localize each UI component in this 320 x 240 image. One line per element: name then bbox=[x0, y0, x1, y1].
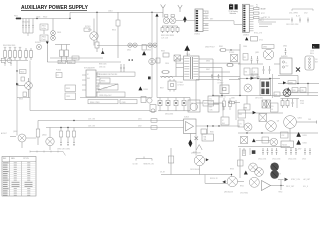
wire opto link bbox=[176, 20, 195, 22]
wire op-amp out bbox=[196, 125, 240, 126]
svg-text:R870: R870 bbox=[204, 103, 208, 105]
wire T801 sec pin5 bbox=[199, 59, 213, 96]
snubber box2 bbox=[65, 85, 76, 92]
capacitor C891 bbox=[67, 141, 69, 146]
svg-text:R825: R825 bbox=[73, 58, 77, 60]
dark logo box right bbox=[312, 44, 320, 49]
resistor R803 bbox=[4, 47, 7, 60]
label bracket mid L bbox=[133, 163, 138, 165]
wire AC riser bbox=[69, 12, 71, 18]
X box small PC804 bbox=[259, 114, 267, 122]
wire gnd bus y97 bbox=[80, 97, 152, 99]
resistor R814 bbox=[95, 12, 99, 52]
transformer T801 body bbox=[184, 56, 200, 80]
tiny arrows left bbox=[4, 62, 12, 66]
node j1 bbox=[96, 12, 97, 13]
svg-text:D87: D87 bbox=[252, 76, 255, 78]
diode dark on y78 bbox=[251, 77, 254, 80]
resistor CN row1 bbox=[254, 8, 260, 10]
transformer T801 primary rungs bbox=[184, 59, 189, 77]
diode box D835 bbox=[98, 84, 118, 90]
label bottom right rows bbox=[240, 185, 244, 187]
wire T801 pin2 bbox=[176, 62, 184, 64]
svg-text:C91: C91 bbox=[239, 124, 242, 126]
svg-text:R950: R950 bbox=[279, 192, 283, 194]
node y78 dots bbox=[246, 78, 270, 79]
antenna Y1 bbox=[161, 5, 166, 18]
wire y95 long bbox=[212, 95, 318, 96]
label ON bbox=[279, 173, 282, 175]
bridge rectifier block bbox=[260, 80, 271, 96]
label PC801 bbox=[178, 82, 184, 87]
wire T801 pin4 long bbox=[160, 76, 184, 78]
svg-text:R831: R831 bbox=[66, 88, 70, 90]
transistor Q842 bbox=[249, 177, 259, 187]
node rail dot bbox=[16, 70, 17, 71]
capacitor C803 bbox=[28, 19, 30, 34]
dark triangle D814 bbox=[142, 45, 146, 56]
gate stopper dark arrow bbox=[16, 83, 19, 86]
snubber box3 bbox=[65, 93, 76, 100]
diode D853 bbox=[182, 98, 186, 111]
connector CN802 pin wires bbox=[249, 6, 253, 31]
transistor Q821 big bbox=[284, 116, 302, 129]
wire y133 long bbox=[238, 132, 318, 133]
snubber X box bbox=[174, 55, 181, 61]
label R815 left of relay bbox=[88, 30, 92, 32]
arrow spark gap bbox=[46, 42, 49, 63]
box R885 bbox=[244, 68, 250, 75]
svg-text:R836 220K: R836 220K bbox=[99, 64, 107, 66]
resistor R890 bbox=[59, 127, 62, 141]
svg-text:803: 803 bbox=[315, 62, 318, 64]
node AC junction bbox=[36, 18, 37, 19]
wire T801 pin1 bbox=[176, 58, 184, 60]
label T801 bbox=[186, 54, 190, 56]
svg-text:IC803: IC803 bbox=[184, 117, 189, 119]
label IC802 bbox=[281, 55, 288, 58]
capacitor C862 bbox=[218, 74, 220, 79]
labels left bottom bbox=[1, 132, 16, 137]
zener ZD831 bbox=[195, 137, 199, 141]
label near k802 bbox=[295, 148, 302, 150]
label snub bbox=[56, 70, 61, 72]
capacitor C836 bbox=[120, 64, 122, 72]
svg-text:LTV817: LTV817 bbox=[178, 85, 184, 87]
antenna Y2 bbox=[178, 5, 182, 12]
wire CN801 to CN802 bbox=[209, 21, 243, 25]
wire y103 a bbox=[196, 102, 203, 104]
capacitor C890 bbox=[60, 141, 62, 146]
svg-text:C942_C943: C942_C943 bbox=[272, 158, 280, 160]
resistor R812 bbox=[55, 45, 70, 63]
svg-text:Q821: Q821 bbox=[298, 117, 302, 119]
svg-text:P1: P1 bbox=[256, 4, 258, 6]
capacitor C861 bbox=[211, 74, 213, 79]
svg-text:P2: P2 bbox=[256, 7, 258, 9]
label D834 bbox=[303, 143, 307, 145]
svg-text:T801: T801 bbox=[186, 54, 190, 56]
svg-text:802: 802 bbox=[286, 65, 289, 67]
label bridge top bbox=[256, 77, 260, 79]
labels bottom row bbox=[57, 148, 70, 150]
resistor R807 bbox=[25, 48, 28, 60]
label below opamp bbox=[193, 152, 197, 154]
out group 4 bbox=[304, 148, 311, 155]
svg-text:D834: D834 bbox=[303, 143, 307, 145]
label 14V ON bbox=[88, 126, 96, 128]
out group 1 bbox=[242, 148, 255, 156]
vert x223 bbox=[222, 103, 224, 117]
svg-text:R726: R726 bbox=[261, 8, 265, 10]
wire x236 mid bbox=[231, 97, 236, 120]
table callout ticks bbox=[30, 151, 66, 156]
resistor R862 hbox bbox=[226, 64, 234, 67]
transistor Q830 bbox=[191, 152, 205, 165]
svg-text:C871 C872: C871 C872 bbox=[255, 97, 263, 99]
svg-text:12V_ON: 12V_ON bbox=[88, 119, 96, 121]
box IC804 bbox=[221, 117, 229, 125]
svg-text:PC802: PC802 bbox=[229, 52, 234, 54]
label comb left top bbox=[3, 45, 15, 47]
wire T801 sec pin8 bbox=[199, 71, 230, 73]
diode D851 bbox=[166, 98, 170, 111]
label C810 bbox=[108, 10, 113, 12]
svg-text:R727: R727 bbox=[261, 13, 265, 15]
svg-text:D867: D867 bbox=[206, 69, 210, 71]
node sec dot bbox=[230, 49, 231, 50]
svg-text:D725: D725 bbox=[259, 39, 263, 41]
svg-text:C88: C88 bbox=[301, 90, 304, 92]
svg-text:D9: D9 bbox=[271, 106, 273, 108]
wire comp out bbox=[271, 185, 308, 188]
connector CN801 pins bbox=[196, 10, 198, 31]
label sec pin wires bbox=[206, 61, 210, 71]
capacitor C866 bbox=[257, 56, 259, 64]
svg-text:R933: R933 bbox=[230, 168, 234, 170]
wire x240 vert low bbox=[239, 148, 241, 178]
svg-text:R8: R8 bbox=[210, 106, 212, 108]
label term bbox=[296, 16, 301, 18]
label bottom mid2 bbox=[230, 168, 234, 170]
svg-text:C905: C905 bbox=[243, 107, 247, 109]
svg-text:Q802: Q802 bbox=[13, 131, 17, 133]
svg-text:R8: R8 bbox=[245, 72, 247, 74]
dark triangle hazard bbox=[184, 45, 190, 56]
label trafo left bbox=[165, 63, 169, 65]
arrow up A1 bbox=[287, 87, 290, 90]
arrow right bottom bbox=[285, 178, 289, 182]
wire bottom-left bus bbox=[0, 60, 28, 62]
wire stub y179 bbox=[278, 179, 284, 181]
dark dot snub bbox=[148, 77, 151, 80]
diode D852 bbox=[174, 98, 178, 111]
wire y79 link bbox=[196, 79, 240, 81]
out group 3 bbox=[285, 148, 297, 155]
opto X box PC802 bbox=[229, 52, 238, 61]
wire y75 right bbox=[278, 76, 298, 84]
svg-text:D833: D833 bbox=[303, 135, 307, 137]
label C864 bbox=[243, 46, 247, 48]
resistor R804 bbox=[9, 47, 12, 60]
elco dark C961 bbox=[270, 170, 279, 179]
svg-text:D862: D862 bbox=[283, 46, 287, 48]
connector CN801 body bbox=[195, 9, 203, 32]
logo TE text bbox=[229, 11, 238, 15]
wire y78 main bbox=[238, 78, 280, 80]
label top caps2 bbox=[22, 21, 30, 23]
svg-text:01: 01 bbox=[271, 109, 273, 111]
wire right rail x240 bbox=[239, 44, 241, 96]
capacitor C865 bbox=[251, 56, 253, 64]
svg-text:RV801: RV801 bbox=[35, 42, 40, 44]
label CN802 bbox=[243, 7, 266, 36]
label box above Q811 bbox=[262, 45, 274, 49]
capacitor C801 bbox=[22, 19, 24, 34]
vert x281 low bbox=[279, 180, 283, 194]
photocoupler PC803 box bbox=[218, 80, 230, 93]
transformer T801 core bbox=[190, 57, 192, 79]
svg-text:C946: C946 bbox=[302, 158, 306, 160]
resistor R805 bbox=[14, 47, 17, 60]
capacitor C802 bbox=[25, 19, 27, 34]
svg-text:SCL_S: SCL_S bbox=[303, 186, 308, 188]
svg-text:D801: D801 bbox=[57, 32, 61, 34]
label cluster AC caps bbox=[36, 17, 47, 19]
line filter LF802 box bbox=[40, 35, 48, 41]
svg-text:REF: REF bbox=[3, 158, 6, 160]
svg-text:LTV817: LTV817 bbox=[218, 83, 224, 85]
svg-text:P_ON: P_ON bbox=[205, 12, 209, 14]
svg-text:F801: F801 bbox=[14, 16, 18, 18]
svg-text:RL_DRV: RL_DRV bbox=[295, 148, 302, 150]
resistor R871 hbox bbox=[228, 101, 240, 104]
transistor Q810 bbox=[283, 89, 291, 97]
svg-text:Q830 C3198: Q830 C3198 bbox=[191, 152, 201, 154]
label PC803 bottom bbox=[219, 97, 226, 99]
wire y83 right bbox=[278, 83, 319, 85]
connector CN802 body bbox=[243, 4, 250, 32]
motor/relay circle M801 bbox=[84, 19, 98, 46]
wire left rail A bbox=[16, 61, 18, 135]
logo TE block bbox=[229, 3, 238, 10]
svg-text:J832: J832 bbox=[138, 126, 142, 128]
svg-text:R820: R820 bbox=[20, 72, 24, 74]
resistor R821 bbox=[21, 77, 25, 81]
fuse F801 on AC line bbox=[14, 16, 21, 20]
svg-text:C851 C852 C853: C851 C852 C853 bbox=[286, 24, 298, 26]
label out2 bbox=[304, 178, 311, 181]
wire rail x152 bbox=[151, 12, 153, 97]
label box R810 bbox=[58, 60, 66, 64]
transistor Q802 bbox=[13, 131, 36, 148]
svg-text:PROT_DET: PROT_DET bbox=[286, 186, 294, 188]
label bracket R bbox=[304, 12, 308, 14]
svg-text:C944_C945: C944_C945 bbox=[288, 158, 296, 160]
wire CN row 5 bbox=[259, 23, 272, 25]
transistor Q804 bbox=[42, 128, 54, 151]
wire y140 bbox=[256, 139, 270, 141]
svg-text:R903: R903 bbox=[300, 100, 304, 102]
wire main rail y110 bbox=[30, 110, 150, 112]
transistor Q822 bbox=[270, 138, 278, 146]
svg-text:C856: C856 bbox=[165, 63, 169, 65]
relay box K801 bbox=[188, 100, 200, 112]
resistor R813 bbox=[65, 45, 69, 63]
dark arrow D817 bbox=[101, 48, 104, 54]
label box R840 bbox=[88, 100, 118, 104]
svg-text:STR-A6069H: STR-A6069H bbox=[84, 67, 95, 70]
resistor comb R851 bbox=[161, 26, 179, 33]
snubber box bbox=[56, 73, 62, 78]
diode pair D811 bbox=[127, 43, 137, 52]
wire x196 vertical bbox=[195, 80, 197, 111]
resistor R806 bbox=[19, 47, 22, 60]
wire source bus bbox=[17, 97, 30, 99]
svg-text:AC_DET: AC_DET bbox=[304, 178, 311, 181]
resistor R861 hbox bbox=[219, 46, 227, 51]
wire x247 stub bbox=[246, 96, 248, 105]
regulator box IC802 bbox=[280, 58, 292, 74]
wire CN row 6 bbox=[259, 25, 268, 27]
diode dark D834 bbox=[297, 140, 301, 145]
labels out rows bbox=[258, 158, 280, 160]
dark tri Q831 bbox=[222, 180, 225, 183]
wire rail x157 bbox=[156, 46, 158, 98]
label box C838 bbox=[97, 92, 125, 97]
box relay K802 bbox=[281, 141, 294, 148]
svg-text:C838 470p 2kV: C838 470p 2kV bbox=[99, 95, 112, 97]
dark mark Q830 bbox=[206, 158, 209, 161]
label box R820 bbox=[20, 70, 27, 74]
svg-text:AUXILIARY POWER SUPPLY: AUXILIARY POWER SUPPLY bbox=[21, 5, 89, 11]
box left low bbox=[238, 160, 244, 166]
svg-text:TV & Display: TV & Display bbox=[229, 11, 238, 13]
svg-text:R868 1K: R868 1K bbox=[219, 97, 226, 99]
svg-text:GND: GND bbox=[205, 24, 208, 26]
svg-text:D866: D866 bbox=[206, 61, 210, 63]
label comb R851 bbox=[161, 35, 174, 40]
bracket mid bottom bbox=[136, 157, 152, 161]
resistor R845 bbox=[223, 98, 226, 110]
label box R811 bbox=[68, 60, 76, 64]
dark double diode D823 bbox=[183, 16, 186, 23]
svg-text:5V_SB: 5V_SB bbox=[133, 163, 138, 165]
resistor R846v bbox=[229, 98, 232, 110]
wire y103 b bbox=[214, 103, 224, 111]
wire rail y120 bbox=[38, 120, 184, 122]
capacitor C892 bbox=[73, 141, 75, 146]
wire T801 pin3 bbox=[176, 67, 184, 69]
svg-text:ACDET: ACDET bbox=[1, 132, 7, 135]
labels out rows 2 bbox=[288, 158, 306, 160]
resistor box R883 bbox=[243, 54, 248, 61]
labels low right bbox=[240, 192, 248, 194]
varistor RV801 bbox=[35, 42, 42, 50]
svg-text:D870: D870 bbox=[256, 77, 260, 79]
svg-text:5V_ST: 5V_ST bbox=[160, 172, 165, 174]
dark triangle below CN802 bbox=[245, 37, 263, 42]
svg-text:KIA7805: KIA7805 bbox=[281, 55, 288, 58]
svg-text:C864: C864 bbox=[243, 46, 247, 48]
ic IC801 PWM bbox=[82, 70, 100, 97]
svg-text:801: 801 bbox=[87, 78, 90, 80]
label R836 bbox=[99, 64, 107, 69]
capacitor C851 bbox=[291, 18, 293, 23]
label mid wires right bbox=[210, 132, 214, 134]
svg-text:D865: D865 bbox=[263, 47, 267, 49]
comparator tri bbox=[262, 181, 271, 191]
svg-text:SNUBBER NETWORK: SNUBBER NETWORK bbox=[99, 74, 118, 76]
wire q821 down bbox=[289, 128, 291, 141]
diode dark D832 bbox=[253, 111, 256, 114]
svg-text:358: 358 bbox=[204, 139, 207, 141]
capacitor C853 bbox=[307, 18, 309, 23]
transistor Q812 bbox=[244, 84, 252, 92]
wire CN row long bbox=[259, 17, 290, 19]
transistor Q840 bbox=[249, 163, 258, 172]
wire AC line top bbox=[15, 18, 70, 20]
wire small stub bbox=[258, 20, 276, 22]
diode D801 bridge bbox=[51, 19, 56, 41]
label IC801 bbox=[84, 67, 95, 70]
label top left corner txt bbox=[256, 4, 258, 8]
box txt left2 bbox=[238, 120, 244, 127]
label Q830 bottom bbox=[190, 169, 200, 171]
op-amp IC803 bbox=[184, 117, 197, 134]
wire y113 bbox=[238, 112, 283, 114]
resistor CN row3 bbox=[254, 17, 260, 19]
box pair X1 bbox=[262, 100, 271, 108]
svg-text:C840: C840 bbox=[122, 102, 126, 104]
svg-text:C940_C941: C940_C941 bbox=[258, 158, 266, 160]
comb right top bbox=[281, 99, 300, 109]
dark tri D836 bbox=[252, 139, 256, 143]
label top right wire bbox=[210, 18, 214, 20]
wire diode row top bus bbox=[157, 97, 190, 99]
X box D835b bbox=[241, 137, 248, 144]
label box bridge top bbox=[251, 74, 258, 78]
svg-text:REMOTE_ON: REMOTE_ON bbox=[144, 163, 155, 165]
box under out wire bbox=[201, 129, 207, 134]
svg-text:R816: R816 bbox=[112, 30, 116, 32]
label CN803 bbox=[315, 59, 318, 64]
svg-text:R941: R941 bbox=[240, 185, 244, 187]
svg-text:CN801: CN801 bbox=[194, 34, 200, 36]
svg-text:R846: R846 bbox=[210, 132, 214, 134]
box R900 bbox=[244, 104, 250, 110]
resistor R825 bbox=[72, 56, 79, 60]
svg-text:R851 R852 R853: R851 R852 R853 bbox=[161, 35, 174, 37]
capacitor C837 bbox=[123, 64, 125, 72]
out group 2 bbox=[262, 148, 277, 155]
big circle Q811 bbox=[255, 49, 274, 60]
svg-text:R835: R835 bbox=[101, 81, 105, 83]
wire to PWM area lower bbox=[47, 61, 121, 63]
svg-text:Q804: Q804 bbox=[42, 135, 46, 137]
box R886 bbox=[252, 68, 258, 75]
svg-text:R860_0: R860_0 bbox=[258, 20, 264, 22]
svg-text:D835: D835 bbox=[103, 88, 107, 90]
label left rail mid bbox=[19, 99, 23, 101]
wire cap bottom bus bbox=[23, 33, 33, 36]
svg-text:J811_OPEN: J811_OPEN bbox=[289, 12, 299, 14]
svg-text:B+: B+ bbox=[313, 47, 315, 49]
wire T801 left rail bbox=[175, 59, 177, 77]
svg-text:DET: DET bbox=[210, 102, 213, 104]
wire y146 bbox=[238, 146, 290, 148]
svg-text:804: 804 bbox=[222, 123, 225, 125]
